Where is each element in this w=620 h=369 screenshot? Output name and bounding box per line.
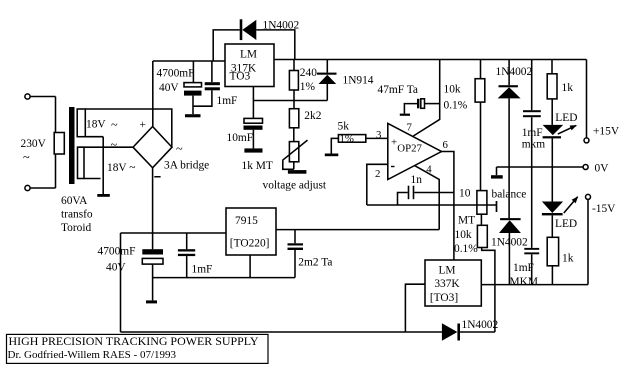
svg-text:4700mF: 4700mF xyxy=(157,68,195,80)
svg-text:~: ~ xyxy=(111,118,118,132)
regulator U4 LM337K TO3 xyxy=(425,260,481,306)
wire negative raw rail xyxy=(121,232,227,234)
wire center tap vertical xyxy=(102,137,104,194)
svg-text:10mF: 10mF xyxy=(227,132,254,144)
svg-text:10k: 10k xyxy=(455,229,472,241)
svg-text:1N4002: 1N4002 xyxy=(491,236,528,248)
wire pin6 output xyxy=(442,152,454,261)
resistor R5 MT 10k 0.1% xyxy=(480,214,482,225)
svg-text:1mF: 1mF xyxy=(217,95,238,107)
svg-text:1mF: 1mF xyxy=(192,264,213,276)
capacitor C4 47mF Ta xyxy=(413,60,439,137)
ground 0V xyxy=(491,175,503,178)
svg-text:Toroid: Toroid xyxy=(61,222,92,234)
ground C1 xyxy=(185,114,201,117)
transformer T1 secondary winding 2 xyxy=(78,147,85,178)
capacitor C6 4700mF 40V negative xyxy=(152,233,154,249)
wire LM317 ADJ xyxy=(252,87,254,119)
ground center tap xyxy=(97,194,110,197)
op-amp U2 OP27 xyxy=(388,123,442,179)
svg-text:5k: 5k xyxy=(338,121,350,133)
diode D3 1N4002 bottom xyxy=(442,323,458,340)
wire tap line to bridge ac2 xyxy=(78,146,134,148)
diode D5 1N4002 lower right xyxy=(500,218,520,220)
node mains input terminal bottom xyxy=(25,185,30,190)
diode D1 1N4002 over LM317 xyxy=(213,30,240,61)
wire negative raw left drop xyxy=(120,233,122,332)
wire 0V line xyxy=(497,166,584,168)
capacitor C9 1mF mkm upper xyxy=(531,60,533,111)
potentiometer P2 balance 10 xyxy=(477,191,487,215)
svg-text:1N4002: 1N4002 xyxy=(496,66,533,78)
svg-text:1N4002: 1N4002 xyxy=(462,319,499,331)
svg-text:230V: 230V xyxy=(21,138,47,150)
svg-text:1mF: 1mF xyxy=(513,262,534,274)
wire -15V rail xyxy=(481,284,588,286)
svg-text:3: 3 xyxy=(376,129,381,141)
svg-text:18V ~: 18V ~ xyxy=(107,162,135,174)
rectifier 3A bridge xyxy=(133,127,172,168)
svg-text:LM: LM xyxy=(438,265,455,277)
node +15V terminal xyxy=(584,138,589,143)
svg-text:+: + xyxy=(391,137,397,149)
svg-text:MKM: MKM xyxy=(510,276,538,288)
svg-text:LM: LM xyxy=(240,49,257,61)
svg-text:4700mF: 4700mF xyxy=(98,246,136,258)
svg-text:1k MT: 1k MT xyxy=(242,160,273,172)
svg-text:transfo: transfo xyxy=(61,209,93,221)
wire secondary top to bridge ac1 xyxy=(85,109,172,147)
diode D4 1N4002 upper right xyxy=(508,60,510,86)
svg-text:mkm: mkm xyxy=(522,138,546,150)
svg-text:7915: 7915 xyxy=(235,215,258,227)
svg-text:HIGH PRECISION TRACKING POWER: HIGH PRECISION TRACKING POWER SUPPLY xyxy=(9,334,259,348)
svg-text:1k: 1k xyxy=(562,82,574,94)
svg-text:~: ~ xyxy=(111,138,118,152)
svg-text:+15V: +15V xyxy=(593,126,620,138)
svg-text:18V: 18V xyxy=(86,119,106,131)
wire secondary 1 bottom extension xyxy=(85,136,103,138)
svg-text:2k2: 2k2 xyxy=(304,110,321,122)
regulator U3 7915 TO220 xyxy=(226,208,276,255)
svg-text:2: 2 xyxy=(375,168,380,180)
svg-text:3A bridge: 3A bridge xyxy=(164,160,209,172)
resistor R3 5k 1% xyxy=(338,135,365,143)
wire bottom terminal to primary xyxy=(30,187,55,189)
wire 5k to op-amp pin 3 xyxy=(366,137,388,139)
svg-text:40V: 40V xyxy=(106,262,126,274)
svg-text:-15V: -15V xyxy=(592,203,616,215)
svg-text:LED: LED xyxy=(555,218,577,230)
wire 5k left to ground xyxy=(331,138,338,153)
wire positive raw rail xyxy=(153,60,225,62)
svg-text:MT: MT xyxy=(458,214,475,226)
svg-text:2m2 Ta: 2m2 Ta xyxy=(298,257,332,269)
capacitor C1 4700mF 40V positive xyxy=(192,61,194,83)
node -15V terminal xyxy=(586,194,591,199)
svg-text:1N4002: 1N4002 xyxy=(263,20,300,32)
svg-text:1n: 1n xyxy=(411,174,423,186)
wire 7915 ground pin xyxy=(249,255,251,278)
wire pin4 V- xyxy=(415,166,440,230)
node 0V terminal xyxy=(583,165,588,170)
LED DL1 upper xyxy=(543,125,564,135)
wire bridge plus riser xyxy=(152,61,154,127)
wire secondary 2 bottom extension xyxy=(84,178,101,180)
resistor R2 2k2 xyxy=(289,109,298,128)
capacitor C8 2m2 Ta xyxy=(294,230,296,244)
wire bridge minus drop xyxy=(152,168,154,233)
wire pin2 xyxy=(367,164,388,205)
svg-text:+: + xyxy=(140,119,146,131)
ground C4 xyxy=(400,114,410,116)
arrow LED lower xyxy=(564,197,578,213)
potentiometer P1 1k MT voltage adjust xyxy=(289,142,298,162)
svg-text:47mF Ta: 47mF Ta xyxy=(378,84,418,96)
svg-text:7: 7 xyxy=(407,122,413,134)
diode D2 1N914 xyxy=(326,60,328,73)
wire +15V drop xyxy=(586,60,588,138)
svg-text:10: 10 xyxy=(459,188,471,200)
svg-text:240: 240 xyxy=(300,67,317,79)
svg-text:TO3: TO3 xyxy=(230,71,251,83)
svg-text:voltage adjust: voltage adjust xyxy=(263,180,327,192)
capacitor C2 1mF positive xyxy=(211,61,213,82)
svg-text:60VA: 60VA xyxy=(61,195,88,207)
arrow LED upper xyxy=(558,125,576,134)
svg-text:1N914: 1N914 xyxy=(343,74,374,86)
svg-text:0.1%: 0.1% xyxy=(454,243,478,255)
wire top terminal to primary xyxy=(30,96,55,98)
node mains input terminal top xyxy=(25,94,30,99)
resistor R1 240 1% xyxy=(293,60,295,71)
svg-text:6: 6 xyxy=(443,139,449,151)
ground C3 xyxy=(244,148,262,152)
svg-text:Dr. Godfried-Willem RAES - 07/: Dr. Godfried-Willem RAES - 07/1993 xyxy=(8,349,177,361)
svg-text:337K: 337K xyxy=(434,278,460,290)
wire +15V output rail xyxy=(274,59,587,61)
svg-text:LED: LED xyxy=(555,112,577,124)
wire LM337 input xyxy=(405,284,425,332)
title box xyxy=(7,334,269,363)
wire common ground line xyxy=(153,277,295,279)
transformer T1 primary winding xyxy=(54,133,64,155)
svg-text:OP27: OP27 xyxy=(397,143,422,155)
wire primary vertical xyxy=(55,97,57,189)
regulator U1 LM317K TO3 xyxy=(225,44,274,87)
svg-text:40V: 40V xyxy=(159,82,179,94)
resistor R7 1k lower xyxy=(547,237,558,265)
resistor R6 1k upper xyxy=(551,60,553,74)
svg-text:1mF: 1mF xyxy=(522,127,543,139)
capacitor C5 1n xyxy=(408,186,410,200)
node wiper tick xyxy=(496,201,498,212)
ground P1 xyxy=(288,170,307,174)
svg-text:~: ~ xyxy=(176,142,183,156)
svg-text:[TO220]: [TO220] xyxy=(230,237,270,249)
svg-text:~: ~ xyxy=(23,150,30,164)
ground C6 xyxy=(146,300,157,303)
resistor R4 10k 0.1% upper xyxy=(480,60,482,79)
ground 5k left end xyxy=(325,154,339,157)
capacitor C3 10mF xyxy=(244,118,263,123)
transformer T1 core xyxy=(69,107,75,184)
svg-text:1k: 1k xyxy=(562,252,574,264)
wire feedback line to wiper xyxy=(367,204,497,206)
svg-text:0.1%: 0.1% xyxy=(444,99,468,111)
capacitor C7 1mF negative xyxy=(186,233,188,249)
svg-text:[TO3]: [TO3] xyxy=(430,292,458,304)
svg-text:1%: 1% xyxy=(300,81,316,93)
capacitor C10 1mF MKM lower xyxy=(524,248,539,250)
svg-text:10k: 10k xyxy=(444,84,461,96)
transformer T1 secondary winding 1 xyxy=(77,109,85,137)
LED DL2 lower xyxy=(551,167,553,202)
svg-text:1%: 1% xyxy=(340,133,354,145)
label minus bridge xyxy=(154,176,160,178)
svg-text:0V: 0V xyxy=(595,163,610,175)
wire negative output rail of 7915 xyxy=(276,229,439,231)
wire bottom negative feed xyxy=(121,331,442,333)
